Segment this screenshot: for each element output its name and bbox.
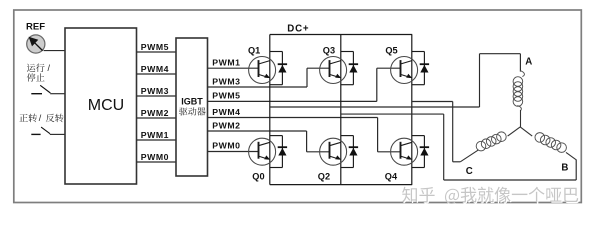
svg-text:PWM4: PWM4 <box>212 107 240 117</box>
svg-text:Q2: Q2 <box>318 171 330 181</box>
svg-text:PWM5: PWM5 <box>212 91 240 101</box>
transistor Q3 <box>320 46 347 84</box>
wire PWM1 to Q1 base <box>208 58 259 69</box>
node DC+ label <box>287 23 309 34</box>
svg-text:PWM4: PWM4 <box>141 64 169 74</box>
wire Q1/Q0 half-bridge vertical <box>269 35 271 185</box>
potentiometer REF <box>27 35 45 53</box>
svg-text:PWM2: PWM2 <box>212 120 240 130</box>
wire DC+ rail <box>270 34 412 36</box>
svg-text:Q0: Q0 <box>252 171 264 181</box>
svg-text:A: A <box>525 57 532 68</box>
svg-text:MCU: MCU <box>88 97 124 114</box>
wire PWM3 MCU to IGBT driver <box>137 86 177 96</box>
switch S1 run/stop <box>31 85 50 93</box>
diode D5 across Q5 <box>412 52 429 85</box>
node REF label <box>26 22 45 33</box>
wire phase W (Q5/Q4) to winding C <box>412 102 460 162</box>
diode D2 across Q2 <box>341 136 358 168</box>
wire PWM1 MCU to IGBT driver <box>137 130 177 140</box>
svg-text:Q5: Q5 <box>385 46 397 56</box>
diode D3 across Q3 <box>341 52 358 85</box>
transistor Q5 <box>385 46 417 84</box>
transistor Q4 <box>385 138 418 181</box>
transistor Q0 <box>249 138 276 181</box>
wire phase U (Q1/Q0) to winding A <box>270 54 521 107</box>
wire S1 to MCU <box>50 93 65 95</box>
IGBT driver U2 <box>176 38 208 176</box>
svg-text:Q3: Q3 <box>323 46 335 56</box>
svg-text:PWM1: PWM1 <box>212 58 240 68</box>
wire REF to MCU <box>44 50 65 52</box>
diode D1 across Q1 <box>270 52 287 85</box>
svg-text:PWM3: PWM3 <box>212 76 240 86</box>
transistor Q1 <box>248 46 276 84</box>
svg-text:C: C <box>466 166 473 177</box>
node C label <box>466 166 473 177</box>
diode D0 across Q0 <box>270 136 287 168</box>
border frame <box>14 10 582 203</box>
wire DC- rail <box>270 184 412 186</box>
svg-text:REF: REF <box>26 22 45 33</box>
node A label <box>525 57 532 68</box>
svg-text:B: B <box>561 163 568 174</box>
wire PWM2 to Q2 base <box>208 120 330 152</box>
node motor star point <box>508 127 533 136</box>
node B label <box>561 163 568 174</box>
winding B (inductor) <box>535 133 576 160</box>
svg-text:PWM5: PWM5 <box>141 42 169 52</box>
wire PWM3 to Q3 base <box>208 68 330 87</box>
svg-text:Q4: Q4 <box>385 171 398 181</box>
svg-text:PWM2: PWM2 <box>141 108 169 118</box>
svg-text:DC+: DC+ <box>287 23 309 34</box>
wire PWM5 MCU to IGBT driver <box>137 42 177 52</box>
switch S2 fwd/rev <box>31 127 50 134</box>
wire PWM5 to Q5 base <box>208 68 401 101</box>
svg-text:PWM0: PWM0 <box>141 152 169 162</box>
wire PWM0 MCU to IGBT driver <box>137 152 177 162</box>
svg-text:PWM3: PWM3 <box>141 86 169 96</box>
svg-text:PWM1: PWM1 <box>141 130 169 140</box>
wire PWM4 MCU to IGBT driver <box>137 64 177 74</box>
watermark 知乎 <box>402 187 579 205</box>
wire PWM2 MCU to IGBT driver <box>137 108 177 118</box>
svg-text:PWM0: PWM0 <box>212 141 240 151</box>
wire Q5/Q4 half-bridge vertical <box>411 35 413 185</box>
svg-text:Q1: Q1 <box>248 46 260 56</box>
winding C (inductor) <box>460 132 506 162</box>
winding A (inductor) <box>513 71 524 127</box>
diode D4 across Q4 <box>412 136 429 168</box>
wire PWM0 to Q0 base <box>208 141 259 152</box>
transistor Q2 <box>318 138 347 181</box>
wire Q3/Q2 half-bridge vertical <box>340 35 342 185</box>
label 正转/反转 <box>19 113 63 123</box>
label 运行/停止 <box>27 63 51 73</box>
wire PWM4 to Q4 base <box>208 107 401 152</box>
MCU U1 <box>65 28 137 184</box>
wire phase V (Q3/Q2) to winding B <box>341 114 576 180</box>
svg-text:IGBT: IGBT <box>181 97 203 107</box>
wire S2 to MCU <box>50 133 65 135</box>
